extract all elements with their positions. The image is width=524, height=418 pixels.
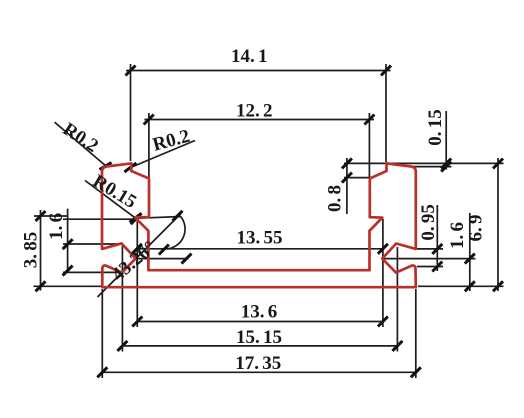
slashes 0.15 [441,159,451,169]
dimension 0.8 line [344,158,504,214]
angle 43.26 leader diagonal [98,214,182,298]
slashes 1.6 left [63,239,73,249]
svg-text:0. 95: 0. 95 [418,204,439,241]
slashes 13.55 [132,244,142,254]
dimension 1.6 left line [63,209,138,273]
svg-text:15. 15: 15. 15 [236,327,282,348]
slash R0.2 left end [100,163,112,170]
svg-text:R0.2: R0.2 [59,119,102,157]
svg-text:3. 85: 3. 85 [21,232,42,269]
slashes 6.9 [493,159,503,169]
dimension 14.1 line [126,64,391,162]
dimension 15.15 line [122,246,397,352]
slashes 17.35 [97,367,107,377]
aluminium profile cross-section [102,163,416,287]
slash R0.15 end [130,213,142,222]
leader R0.15 [85,181,136,219]
angle 43.26 arc [167,216,185,249]
dimension 0.15 line [413,111,452,170]
slashes 3.85 [36,211,46,221]
svg-text:12. 2: 12. 2 [236,101,273,122]
svg-text:13. 6: 13. 6 [241,302,278,323]
svg-text:14. 1: 14. 1 [231,46,268,67]
slashes 12.2 [144,115,154,125]
slashes 1.6 right [465,254,475,264]
slash at ledge corner [131,214,141,224]
dimension 6.9 line [418,158,504,291]
slashes 14.1 [126,66,136,76]
svg-text:R0.15: R0.15 [89,171,140,213]
slashes 13.6 [132,317,142,327]
svg-text:1. 6: 1. 6 [46,213,67,240]
angle 43.26 upper side [136,217,181,219]
svg-text:0. 8: 0. 8 [325,185,346,212]
slash on tip line G [182,254,192,264]
slash arc top [173,211,183,221]
svg-text:6. 9: 6. 9 [465,215,486,242]
svg-text:17. 35: 17. 35 [235,353,281,374]
svg-text:0. 15: 0. 15 [425,109,446,146]
dimension 13.55 line [137,248,383,250]
dimension 1.6 right line [383,213,476,291]
dimension 17.35 line [102,289,416,378]
dimension 0.95 line [417,205,443,271]
dimension 3.85 line [34,210,102,291]
dimension 12.2 line [144,113,374,178]
leader R0.2 left [55,122,107,166]
svg-text:13. 55: 13. 55 [237,228,283,249]
angle 43.26 horizontal side [136,258,189,260]
slashes 15.15 [117,341,127,351]
svg-text:R0.2: R0.2 [150,126,192,156]
leader R0.2 right [129,141,195,169]
dimension 13.6 line [137,219,383,328]
slash R0.2 right end [124,163,136,172]
slashes 0.8 [342,158,352,168]
arrow slashes [36,66,504,378]
dimension texts [21,46,487,374]
slash arc end [159,245,169,255]
slashes 0.95 [432,244,442,254]
